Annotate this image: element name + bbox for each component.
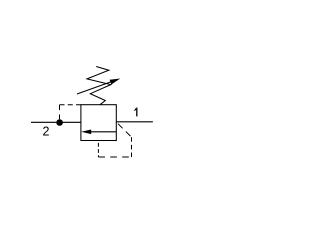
svg-text:2: 2 xyxy=(43,124,50,138)
